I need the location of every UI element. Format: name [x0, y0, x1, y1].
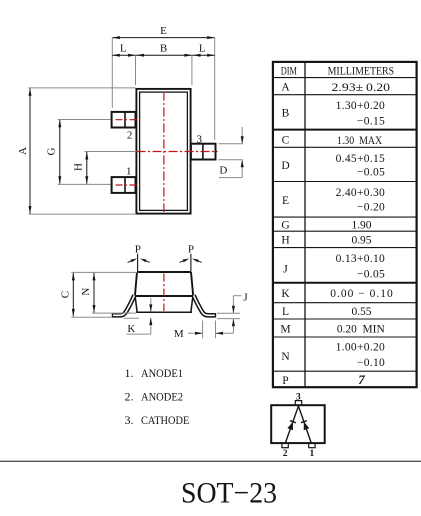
- extension line P left: [137, 254, 139, 272]
- symbol pin 3 label: [296, 392, 301, 402]
- symbol pin 3 tab: [295, 401, 301, 406]
- label B: [160, 43, 167, 55]
- svg-text:H: H: [72, 163, 84, 171]
- right lead (gull wing): [194, 295, 216, 317]
- svg-text:A: A: [17, 147, 29, 155]
- svg-text:L: L: [199, 43, 206, 55]
- seating plane line K: [124, 317, 139, 319]
- extension line E right: [214, 38, 216, 140]
- svg-text:1: 1: [126, 165, 132, 177]
- svg-text:2: 2: [283, 449, 288, 459]
- table row P: [282, 372, 365, 387]
- svg-text:1: 1: [310, 449, 315, 459]
- table header: [281, 65, 394, 77]
- dimension arrow K bottom: [149, 318, 152, 335]
- svg-text:K: K: [127, 323, 135, 335]
- angle arrows P left: [128, 259, 150, 263]
- symbol pin 2 tab: [282, 443, 288, 448]
- svg-text:0.20 MIN: 0.20 MIN: [337, 324, 386, 336]
- leader J bracket: [232, 296, 242, 314]
- pin function 3: [125, 413, 190, 427]
- svg-text:0.13+0.10: 0.13+0.10: [336, 253, 385, 265]
- body waist line (side view): [134, 295, 194, 297]
- leader C top: [71, 271, 137, 273]
- table row M: [280, 324, 385, 336]
- dimension line C: [72, 273, 75, 317]
- pin 3 tab (top view): [191, 144, 216, 160]
- svg-text:P: P: [135, 244, 141, 256]
- body left side (side view): [135, 272, 137, 296]
- svg-text:0.00 − 0.10: 0.00 − 0.10: [330, 288, 393, 300]
- dimension line H: [85, 152, 88, 184]
- horizontal centerline (top view): [137, 151, 218, 153]
- table row J: [283, 253, 385, 280]
- dimension arrows D: [219, 127, 244, 178]
- svg-text:1.30 MAX: 1.30 MAX: [337, 135, 383, 147]
- pin 1 tab (top view): [112, 177, 136, 193]
- svg-text:−0.20: −0.20: [357, 201, 385, 213]
- symbol box: [271, 405, 325, 443]
- svg-text:−0.05: −0.05: [357, 268, 385, 280]
- dimension arrow J bottom: [232, 319, 235, 334]
- svg-text:B: B: [160, 43, 167, 55]
- svg-text:0.95: 0.95: [352, 235, 372, 247]
- svg-text:K: K: [281, 288, 290, 300]
- body top edge (side view): [137, 271, 191, 273]
- svg-text:−0.15: −0.15: [357, 116, 385, 128]
- extension line body-right: [191, 55, 193, 85]
- pin 1 label: [126, 165, 132, 177]
- leader D top: [219, 143, 243, 145]
- title SOT-23: [181, 476, 277, 509]
- label J: [243, 292, 248, 304]
- leader N bottom: [92, 312, 136, 314]
- extension line E left: [111, 38, 113, 108]
- svg-text:E: E: [282, 195, 289, 207]
- svg-text:1.30+0.20: 1.30+0.20: [336, 100, 385, 112]
- svg-text:C: C: [59, 291, 71, 298]
- leader A top: [29, 87, 136, 89]
- leader J foot bottom: [217, 318, 240, 320]
- label G: [46, 147, 58, 155]
- table row A: [281, 82, 390, 94]
- pin 2 tab (top view): [112, 112, 136, 128]
- symbol pin 1 label: [310, 449, 315, 459]
- symbol pin 2 label: [283, 449, 288, 459]
- vertical centerline (top view): [163, 92, 165, 213]
- svg-text:G: G: [46, 147, 58, 155]
- body lower right side: [191, 296, 193, 312]
- svg-text:2.: 2.: [125, 390, 134, 404]
- label M: [174, 328, 184, 340]
- svg-text:1.: 1.: [125, 366, 134, 380]
- svg-text:A: A: [281, 82, 290, 94]
- svg-text:ANODE2: ANODE2: [141, 390, 183, 404]
- pin function 1: [125, 366, 184, 380]
- svg-text:3.: 3.: [125, 413, 134, 427]
- pin function 2: [125, 390, 184, 404]
- leader H top: [85, 151, 137, 153]
- dimension line N: [93, 273, 96, 313]
- svg-text:0.45+0.15: 0.45+0.15: [336, 153, 385, 165]
- body bottom edge (side view): [136, 311, 192, 313]
- svg-text:0.55: 0.55: [352, 306, 372, 318]
- svg-text:D: D: [219, 165, 227, 177]
- svg-text:1.00+0.20: 1.00+0.20: [336, 342, 385, 354]
- svg-text:2: 2: [127, 129, 133, 141]
- label E: [160, 25, 167, 37]
- extension line M right: [215, 321, 217, 339]
- leader J foot top: [217, 312, 240, 314]
- svg-text:C: C: [282, 134, 290, 146]
- horizontal rule: [0, 460, 421, 462]
- svg-text:H: H: [281, 235, 289, 247]
- dimension line A: [29, 88, 32, 213]
- svg-text:M: M: [280, 324, 290, 336]
- table row D: [281, 153, 385, 179]
- svg-text:2.40+0.30: 2.40+0.30: [336, 187, 385, 199]
- leader C bottom: [71, 316, 111, 318]
- centerline (side view): [163, 274, 165, 312]
- svg-text:B: B: [282, 108, 290, 120]
- svg-text:D: D: [281, 160, 289, 172]
- svg-text:P: P: [188, 244, 194, 256]
- pin 2 centerline: [116, 119, 141, 121]
- dimension line L-B-L: [112, 54, 214, 57]
- svg-text:G: G: [281, 219, 289, 231]
- table row H: [281, 235, 371, 247]
- svg-text:1.90: 1.90: [352, 219, 372, 231]
- dimension line E: [112, 36, 214, 39]
- dimension table grid: [273, 62, 417, 387]
- table row B: [282, 100, 385, 128]
- leader G top: [58, 119, 111, 121]
- leader K label line: [127, 333, 151, 335]
- dimension arrow K top: [149, 298, 152, 312]
- svg-text:CATHODE: CATHODE: [141, 413, 189, 427]
- diode D2 (pin2 anode to pin3 cathode): [285, 406, 298, 443]
- svg-text:MILLIMETERS: MILLIMETERS: [328, 65, 395, 77]
- svg-text:N: N: [281, 351, 290, 363]
- svg-text:3: 3: [296, 392, 301, 402]
- svg-text:N: N: [80, 288, 92, 296]
- svg-text:M: M: [174, 328, 184, 340]
- dimension line G: [58, 120, 61, 184]
- table row C: [282, 134, 383, 147]
- left lead (gull wing): [112, 295, 134, 317]
- svg-text:−0.05: −0.05: [357, 167, 385, 179]
- leader A bottom: [29, 213, 137, 215]
- label D: [219, 165, 227, 177]
- table row N: [281, 342, 385, 370]
- table row G: [281, 219, 371, 231]
- svg-text:L: L: [120, 43, 127, 55]
- pin 2 label: [127, 129, 133, 141]
- label L right: [199, 43, 206, 55]
- svg-text:DIM: DIM: [281, 65, 297, 77]
- body right side (side view): [191, 272, 193, 296]
- extension line body-left: [135, 55, 137, 85]
- label P left: [135, 244, 141, 256]
- svg-text:−0.10: −0.10: [357, 357, 385, 369]
- table row L: [282, 306, 372, 318]
- label C: [59, 291, 71, 298]
- package body outline (top view): [136, 89, 190, 214]
- label K: [127, 323, 135, 335]
- svg-text:3: 3: [197, 133, 203, 145]
- dimension arrow M left: [188, 332, 203, 335]
- label N: [80, 288, 92, 296]
- svg-text:P: P: [282, 375, 288, 387]
- angle arrows P right: [180, 259, 202, 263]
- svg-text:7: 7: [358, 372, 365, 387]
- pin 3 label: [197, 133, 203, 145]
- label A: [17, 147, 29, 155]
- svg-text:L: L: [282, 306, 289, 318]
- svg-text:ANODE1: ANODE1: [141, 366, 183, 380]
- label L left: [120, 43, 127, 55]
- extension line M left: [202, 321, 204, 339]
- svg-text:2.93± 0.20: 2.93± 0.20: [332, 82, 391, 94]
- svg-text:J: J: [283, 264, 288, 276]
- diode D1 (pin1 anode to pin3 cathode): [299, 406, 312, 443]
- label H: [72, 163, 84, 171]
- leader D bottom: [219, 159, 243, 161]
- label P right: [188, 244, 194, 256]
- svg-text:J: J: [243, 292, 248, 304]
- svg-text:E: E: [160, 25, 167, 37]
- pin 1 centerline: [116, 184, 141, 186]
- leader G-H bottom: [58, 183, 111, 185]
- symbol pin 1 tab: [309, 443, 315, 448]
- extension line P right: [190, 254, 192, 272]
- table row K: [281, 288, 393, 300]
- body lower left side: [135, 296, 137, 312]
- svg-text:SOT−23: SOT−23: [181, 476, 277, 509]
- table row E: [282, 187, 385, 214]
- dimension arrow M right: [216, 332, 234, 335]
